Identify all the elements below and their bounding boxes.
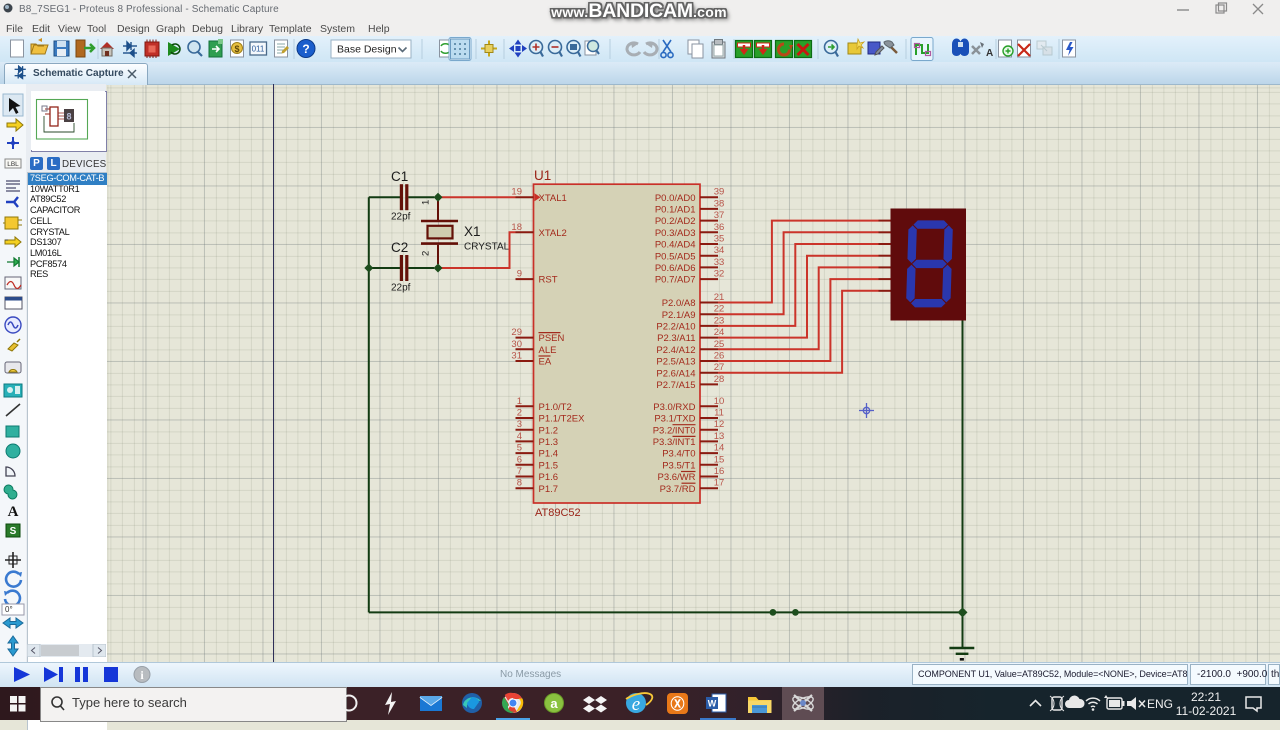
svg-text:S: S — [10, 526, 17, 537]
junction node at C1/crystal pin1 — [434, 193, 443, 202]
svg-text:8: 8 — [517, 478, 522, 489]
svg-text:P2.7/A15: P2.7/A15 — [656, 380, 695, 391]
svg-text:AT89C52: AT89C52 — [535, 507, 581, 519]
svg-text:C2: C2 — [391, 240, 408, 255]
pin 3 P1.2 stub — [516, 419, 559, 436]
svg-text:38: 38 — [714, 198, 725, 209]
pin 10 P3.0/RXD stub — [653, 396, 724, 413]
pin 13 P3.3/INT1 stub — [653, 431, 725, 448]
pin 17 P3.7/RD stub — [660, 478, 725, 495]
svg-text:11: 11 — [714, 408, 724, 419]
display segment d — [911, 299, 946, 307]
svg-text:16: 16 — [714, 466, 725, 477]
pin 19 XTAL1 stub — [511, 187, 566, 204]
pin 14 P3.4/T0 stub — [662, 443, 724, 460]
pin 4 P1.3 stub — [516, 431, 559, 448]
pin 38 P0.1/AD1 stub — [655, 198, 724, 215]
pin 37 P0.2/AD2 stub — [655, 210, 724, 227]
pin 28 P2.7/A15 stub — [656, 374, 724, 391]
wire ground loop left vertical — [368, 197, 370, 612]
pin 22 P2.1/A9 stub — [662, 304, 725, 321]
svg-text:P3.7/RD: P3.7/RD — [660, 484, 696, 495]
pin 23 P2.2/A10 stub — [656, 315, 724, 332]
pin 26 P2.5/A13 stub — [656, 351, 724, 368]
display pin a stub — [879, 220, 891, 222]
svg-text:13: 13 — [714, 431, 725, 442]
svg-text:34: 34 — [714, 245, 725, 256]
svg-text:21: 21 — [714, 292, 725, 303]
svg-text:P0.0/AD0: P0.0/AD0 — [655, 193, 696, 204]
pin 19 XTAL1 input arrow — [535, 193, 541, 201]
svg-text:0°: 0° — [5, 605, 13, 614]
svg-text:P3.3/INT1: P3.3/INT1 — [653, 437, 696, 448]
wire XTAL2 net: junction2 to pin 18 — [438, 232, 516, 268]
sim bar — [0, 662, 1280, 688]
svg-text:5: 5 — [517, 443, 522, 454]
svg-text:P0.4/AD4: P0.4/AD4 — [655, 240, 696, 251]
wire P2.3 (pin 24) to display segment d — [718, 256, 879, 338]
svg-text:12: 12 — [714, 419, 725, 430]
bandicam watermark — [533, 0, 745, 23]
overline PSEN — [539, 332, 561, 334]
svg-text:25: 25 — [714, 339, 725, 350]
svg-text:P1.6: P1.6 — [539, 472, 559, 483]
svg-text:27: 27 — [714, 362, 725, 373]
svg-text:P1.0/T2: P1.0/T2 — [539, 402, 572, 413]
svg-text:XTAL2: XTAL2 — [539, 228, 567, 239]
wire P2.6 (pin 27) to display segment g — [718, 291, 879, 373]
pin 1 P1.0/T2 stub — [516, 396, 572, 413]
svg-text:X1: X1 — [464, 224, 481, 239]
pin 12 P3.2/INT0 stub — [653, 419, 725, 436]
crystal X1 — [421, 201, 458, 264]
svg-text:1: 1 — [421, 200, 432, 205]
svg-text:33: 33 — [714, 257, 725, 268]
display segment b — [943, 225, 953, 263]
svg-text:P0.3/AD3: P0.3/AD3 — [655, 228, 696, 239]
display pin b stub — [879, 231, 891, 233]
svg-text:19: 19 — [511, 187, 522, 198]
overline EA — [539, 355, 551, 357]
svg-text:Ⓧ: Ⓧ — [671, 696, 685, 712]
svg-text:EA: EA — [539, 357, 552, 368]
svg-text:22: 22 — [714, 304, 725, 315]
svg-text:P3.1/TXD: P3.1/TXD — [654, 414, 695, 425]
junction node bottom rail B — [792, 609, 799, 616]
svg-text:3: 3 — [517, 419, 522, 430]
svg-text:Base Design: Base Design — [337, 44, 397, 56]
wire P2.0 (pin 21) to display segment a — [718, 221, 879, 303]
svg-text:6: 6 — [517, 454, 522, 465]
svg-text:P1.3: P1.3 — [539, 437, 559, 448]
pin 33 P0.6/AD6 stub — [655, 257, 724, 274]
svg-text:LBL: LBL — [7, 161, 19, 168]
wire P2.2 (pin 23) to display segment c — [718, 244, 879, 326]
svg-text:1: 1 — [517, 396, 522, 407]
svg-text:PSEN: PSEN — [539, 333, 565, 344]
overline INT0 — [673, 424, 696, 426]
display segment f — [907, 225, 917, 263]
svg-text:P0.1/AD1: P0.1/AD1 — [655, 205, 696, 216]
svg-text:P1.2: P1.2 — [539, 425, 559, 436]
svg-text:P2.3/A11: P2.3/A11 — [657, 333, 695, 344]
svg-text:36: 36 — [714, 222, 725, 233]
svg-text:P3.5/T1: P3.5/T1 — [662, 460, 695, 471]
ground symbol — [949, 648, 974, 659]
svg-text:P2.0/A8: P2.0/A8 — [662, 298, 696, 309]
svg-text:CRYSTAL: CRYSTAL — [464, 242, 510, 253]
svg-text:23: 23 — [714, 315, 725, 326]
svg-text:2: 2 — [421, 251, 432, 256]
pin 16 P3.6/WR stub — [657, 466, 724, 483]
svg-text:$: $ — [234, 44, 239, 54]
svg-text:?: ? — [302, 42, 309, 56]
pin 31 EA stub — [511, 351, 551, 368]
capacitor C2 — [369, 240, 434, 294]
svg-text:7: 7 — [517, 466, 522, 477]
pin 6 P1.5 stub — [516, 454, 559, 471]
svg-text:P0.5/AD5: P0.5/AD5 — [655, 251, 696, 262]
schematic drawing — [107, 84, 1280, 662]
svg-text:P1.1/T2EX: P1.1/T2EX — [539, 414, 586, 425]
title bar — [0, 0, 1280, 21]
svg-text:15: 15 — [714, 454, 725, 465]
svg-text:P3.4/T0: P3.4/T0 — [662, 449, 695, 460]
display segment e — [906, 265, 916, 303]
pin 25 P2.4/A12 stub — [656, 339, 724, 356]
svg-text:P2.4/A12: P2.4/A12 — [656, 345, 695, 356]
taskbar — [0, 687, 1280, 720]
pin 35 P0.4/AD4 stub — [655, 234, 724, 251]
display segment a — [913, 220, 948, 228]
svg-text:a: a — [550, 696, 558, 711]
pin 27 P2.6/A14 stub — [656, 362, 724, 379]
svg-text:P0.2/AD2: P0.2/AD2 — [655, 216, 696, 227]
svg-text:P0.7/AD7: P0.7/AD7 — [655, 275, 696, 286]
wire P2.4 (pin 25) to display segment e — [718, 267, 879, 349]
svg-text:W: W — [708, 699, 717, 709]
svg-text:XTAL1: XTAL1 — [539, 193, 567, 204]
left toolbar strip — [0, 84, 27, 662]
pin 11 P3.1/TXD stub — [654, 408, 724, 425]
pin 34 P0.5/AD5 stub — [655, 245, 724, 262]
origin marker — [859, 403, 874, 418]
wire ground bottom horizontal — [369, 611, 963, 613]
svg-text:ALE: ALE — [539, 345, 557, 356]
menu bar — [0, 20, 1280, 36]
svg-text:35: 35 — [714, 234, 725, 245]
svg-text:29: 29 — [511, 327, 522, 338]
chip U1 AT89C52 body — [534, 184, 701, 503]
pin 2 P1.1/T2EX stub — [516, 408, 586, 425]
display pin d stub — [879, 255, 891, 257]
svg-text:P2.5/A13: P2.5/A13 — [656, 357, 695, 368]
svg-text:22pf: 22pf — [391, 283, 411, 294]
pin 32 P0.7/AD7 stub — [655, 269, 724, 286]
svg-text:C1: C1 — [391, 169, 408, 184]
display segment c — [942, 265, 952, 303]
svg-text:39: 39 — [714, 187, 725, 198]
svg-text:14: 14 — [714, 443, 725, 454]
svg-text:22pf: 22pf — [391, 212, 411, 223]
overline RD — [682, 482, 696, 484]
pin 15 P3.5/T1 stub — [662, 454, 724, 471]
svg-text:37: 37 — [714, 210, 725, 221]
display pin g stub — [879, 290, 891, 292]
pin 5 P1.4 stub — [516, 443, 559, 460]
svg-text:26: 26 — [714, 351, 725, 362]
svg-text:2: 2 — [517, 408, 522, 419]
svg-text:P0.6/AD6: P0.6/AD6 — [655, 263, 696, 274]
sheet border — [273, 84, 275, 662]
tab bar — [0, 62, 1280, 85]
display pin c stub — [879, 243, 891, 245]
pin 30 ALE stub — [511, 339, 556, 356]
svg-text:U1: U1 — [534, 168, 551, 183]
wire XTAL1 net: junction to pin 19 — [438, 196, 516, 198]
canvas grid — [107, 84, 1280, 662]
window controls — [1170, 0, 1280, 20]
junction node at C2/crystal pin2 — [434, 264, 443, 273]
svg-text:30: 30 — [511, 339, 522, 350]
svg-text:e: e — [632, 694, 640, 715]
svg-text:4: 4 — [517, 431, 522, 442]
svg-text:17: 17 — [714, 478, 725, 489]
svg-text:P1.5: P1.5 — [539, 460, 559, 471]
pin 36 P0.3/AD3 stub — [655, 222, 724, 239]
pin 21 P2.0/A8 stub — [662, 292, 725, 309]
junction node left rail at C2 — [364, 264, 373, 273]
svg-text:18: 18 — [511, 222, 522, 233]
svg-text:P2.6/A14: P2.6/A14 — [656, 368, 695, 379]
left panel — [26, 84, 106, 662]
overline INT1 — [673, 435, 696, 437]
svg-text:31: 31 — [511, 351, 522, 362]
7-segment display body — [891, 209, 967, 321]
junction node at ground branch — [958, 607, 968, 617]
wire display common vertical — [962, 321, 964, 649]
svg-text:A: A — [986, 48, 993, 59]
svg-text:P2.1/A9: P2.1/A9 — [662, 310, 696, 321]
svg-text:P2.2/A10: P2.2/A10 — [656, 322, 695, 333]
svg-text:24: 24 — [714, 327, 725, 338]
pin 39 P0.0/AD0 stub — [655, 187, 724, 204]
display segment g — [912, 260, 947, 268]
svg-text:11-02-2021: 11-02-2021 — [1176, 704, 1237, 718]
junction node bottom rail A — [770, 609, 777, 616]
svg-text:P3.0/RXD: P3.0/RXD — [653, 402, 695, 413]
svg-text:28: 28 — [714, 374, 725, 385]
svg-text:P1.7: P1.7 — [539, 484, 559, 495]
wire P2.1 (pin 22) to display segment b — [718, 232, 879, 314]
svg-text:RST: RST — [539, 275, 558, 286]
svg-text:22:21: 22:21 — [1191, 690, 1221, 704]
svg-text:ENG: ENG — [1147, 697, 1173, 711]
svg-text:P3.6/WR: P3.6/WR — [657, 472, 695, 483]
svg-text:9: 9 — [517, 269, 522, 280]
svg-text:011: 011 — [252, 45, 265, 54]
toolbar — [0, 36, 1280, 63]
display pin f stub — [879, 278, 891, 280]
wire P2.5 (pin 26) to display segment f — [718, 279, 879, 361]
pin 9 RST stub — [516, 269, 558, 286]
pin 29 PSEN stub — [511, 327, 564, 344]
overline WR — [681, 471, 696, 473]
svg-text:8: 8 — [67, 112, 72, 122]
pin 24 P2.3/A11 stub — [657, 327, 724, 344]
pin 7 P1.6 stub — [516, 466, 559, 483]
capacitor C1 — [369, 169, 434, 223]
display pin e stub — [879, 266, 891, 268]
pin 18 XTAL2 stub — [511, 222, 566, 239]
svg-text:32: 32 — [714, 269, 725, 280]
svg-text:10: 10 — [714, 396, 725, 407]
svg-text:P3.2/INT0: P3.2/INT0 — [653, 425, 696, 436]
svg-text:A: A — [8, 504, 19, 520]
pin 8 P1.7 stub — [516, 478, 559, 495]
svg-text:P1.4: P1.4 — [539, 449, 559, 460]
